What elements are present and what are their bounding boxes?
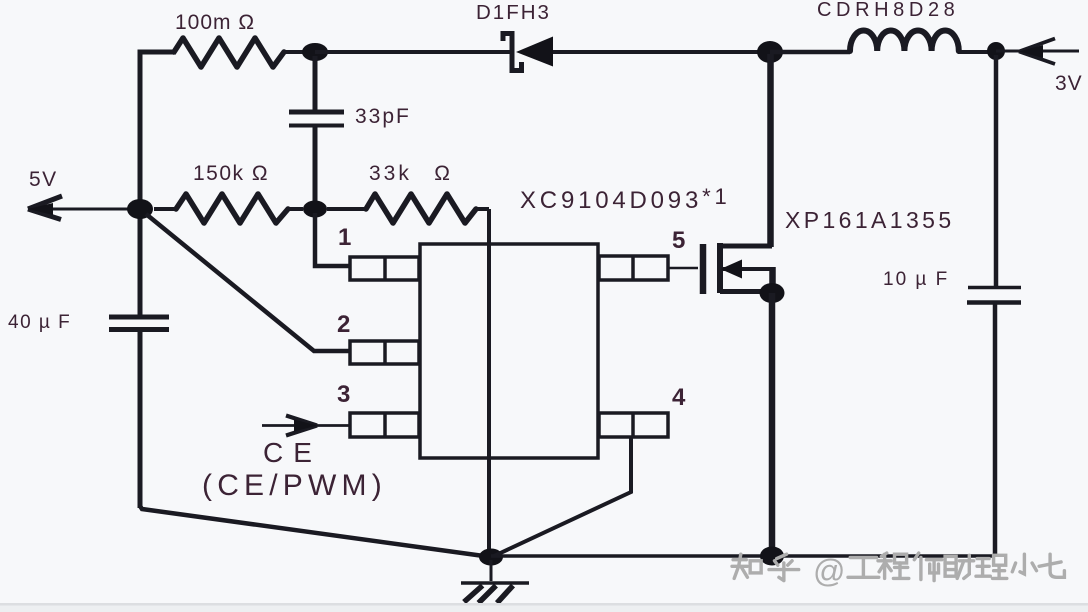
svg-text:D1FH3: D1FH3 — [476, 1, 551, 24]
小 — [1012, 554, 1036, 574]
junction Q1 source at ground bus — [760, 547, 784, 566]
svg-text:2: 2 — [337, 311, 350, 338]
wire node A down to C2 — [313, 56, 318, 112]
svg-text:4: 4 — [672, 384, 686, 411]
pin 2 box — [350, 341, 419, 364]
svg-text:3V: 3V — [1055, 72, 1083, 95]
ground — [461, 560, 529, 603]
junction node A — [302, 43, 328, 61]
理 — [976, 555, 1007, 578]
wire bottom ground bus — [491, 554, 994, 558]
wire Q1 source down to ground wire — [769, 293, 776, 552]
pin 5 box — [599, 256, 668, 280]
wire R3 corner down through U1 to ground node — [487, 209, 491, 550]
svg-text:100m Ω: 100m Ω — [175, 11, 255, 34]
junction node FB — [303, 201, 327, 218]
svg-text:3: 3 — [337, 381, 350, 408]
capacitor C3 10µF — [967, 288, 1021, 303]
capacitor C1 40µF — [109, 317, 169, 330]
师 — [914, 553, 942, 581]
pin 1 box — [350, 257, 419, 280]
svg-text:150k Ω: 150k Ω — [193, 162, 269, 185]
pin 4 box — [599, 413, 668, 437]
resistor R3 33kΩ — [327, 194, 489, 223]
wire diode anode to node LX — [553, 50, 770, 54]
svg-text:@: @ — [813, 553, 845, 589]
wire pin 4 to ground node — [494, 437, 631, 556]
op-amp U1 XC9104D093 body — [420, 244, 598, 458]
乎 — [769, 554, 799, 580]
wire node 5V diagonal to pin 2 — [146, 214, 349, 351]
watermark (decorative) — [732, 553, 1064, 589]
wire node LX to inductor L1 — [770, 50, 850, 55]
inductor L1 CDRH8D28 — [850, 30, 959, 51]
junction node 5V — [127, 199, 153, 219]
程 — [878, 553, 909, 578]
wire rail bottom diagonal to ground node — [140, 506, 491, 557]
resistor R2 150kΩ — [154, 194, 303, 223]
wire node FB to pin 1 — [315, 213, 349, 266]
wire 3V input with arrow — [996, 39, 1079, 65]
junction node VIN — [987, 42, 1005, 60]
transistor Q1 XP161A1355 — [703, 243, 773, 294]
七 — [1039, 554, 1064, 577]
wire VIN rail right vertical — [995, 55, 996, 556]
svg-text:XC9104D093*1: XC9104D093*1 — [520, 184, 731, 214]
wire node A to diode D1 cathode — [315, 50, 510, 54]
wire 5V output with arrow — [28, 196, 140, 220]
wire C2 down to node FB — [313, 127, 318, 209]
wire inductor to node VIN — [958, 50, 996, 54]
助 — [945, 555, 974, 578]
wire VOUT top: corner to R1 — [138, 50, 177, 55]
svg-text:5V: 5V — [29, 168, 58, 191]
svg-text:40 µ F: 40 µ F — [8, 312, 71, 333]
junction ground node — [479, 549, 503, 566]
wire CE input with arrow — [262, 416, 349, 436]
svg-text:33pF: 33pF — [355, 105, 411, 128]
svg-text:10 µ F: 10 µ F — [883, 269, 949, 290]
svg-text:CE: CE — [263, 437, 322, 468]
wire pin 5 to Q1 gate — [668, 267, 698, 270]
wire R1 to node A — [284, 50, 315, 54]
junction node LX — [757, 41, 783, 63]
svg-text:1: 1 — [338, 224, 351, 251]
resistor R1 100mΩ — [174, 38, 284, 67]
pin 3 box — [350, 413, 419, 437]
bottom band (decorative) — [0, 603, 1088, 612]
工 — [848, 558, 879, 578]
junction Q1 source corner — [760, 283, 785, 303]
diode D1 (Schottky) — [503, 31, 553, 73]
svg-text:XP161A1355: XP161A1355 — [785, 207, 955, 233]
svg-text:(CE/PWM): (CE/PWM) — [202, 469, 387, 502]
svg-text:33k Ω: 33k Ω — [369, 162, 453, 185]
svg-text:CDRH8D28: CDRH8D28 — [817, 0, 959, 21]
svg-text:5: 5 — [672, 227, 685, 254]
知 — [732, 554, 761, 578]
wire 5V rail vertical (left) — [138, 54, 143, 508]
capacitor C2 33pF — [289, 112, 344, 126]
wire node LX to Q1 drain — [767, 54, 774, 247]
